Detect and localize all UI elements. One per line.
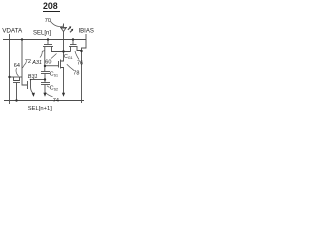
svg-text:B31: B31 [28, 74, 38, 80]
svg-text:72: 72 [25, 59, 31, 65]
svg-text:IBIAS: IBIAS [79, 28, 94, 34]
svg-text:SEL[n+1]: SEL[n+1] [28, 106, 52, 112]
svg-text:60: 60 [45, 59, 51, 65]
svg-text:A31: A31 [31, 60, 42, 66]
svg-text:76: 76 [77, 61, 83, 67]
svg-text:74: 74 [53, 98, 59, 104]
svg-text:70: 70 [45, 18, 51, 24]
svg-text:64: 64 [14, 63, 20, 69]
svg-text:SEL[n]: SEL[n] [33, 30, 51, 36]
svg-text:208: 208 [43, 1, 58, 11]
svg-text:VDATA: VDATA [2, 27, 23, 34]
svg-text:78: 78 [73, 70, 79, 76]
